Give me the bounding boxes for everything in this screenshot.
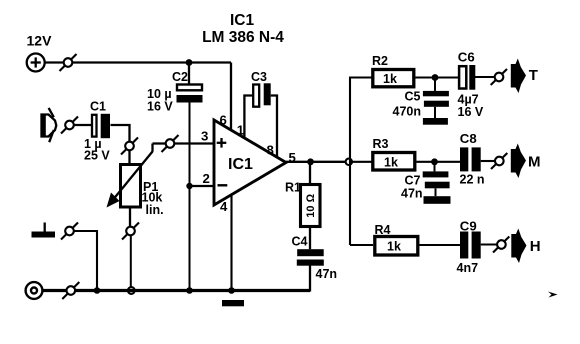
svg-text:C6: C6 xyxy=(458,50,475,65)
ground rail wire xyxy=(43,289,310,292)
svg-text:IC1: IC1 xyxy=(230,12,255,29)
wire H branch xyxy=(350,244,373,246)
wire C1 to P1 top xyxy=(111,125,130,142)
svg-text:47n: 47n xyxy=(316,267,338,281)
svg-text:12V: 12V xyxy=(27,33,53,49)
svg-text:10 Ω: 10 Ω xyxy=(305,193,317,217)
wire R4 to C9 xyxy=(420,244,461,246)
capacitor C5 xyxy=(393,78,449,119)
ground bar below C5 xyxy=(423,118,448,125)
potentiometer P1 xyxy=(107,152,164,218)
capacitor C1 xyxy=(84,100,110,163)
output arrow H xyxy=(511,229,540,264)
IC1 title label xyxy=(202,12,284,46)
junction C2/rail xyxy=(186,59,193,66)
capacitor C3 xyxy=(251,70,271,107)
wire R2 to C6 xyxy=(415,76,458,78)
svg-text:4: 4 xyxy=(220,199,228,214)
svg-text:47n: 47n xyxy=(401,187,423,201)
wire pin 2 xyxy=(190,185,215,187)
svg-text:1: 1 xyxy=(237,123,244,138)
wire R3 to C8 xyxy=(417,161,461,163)
svg-text:C1: C1 xyxy=(90,100,106,114)
junction R1/output xyxy=(307,158,314,165)
wire C6 to contact xyxy=(474,76,494,78)
svg-text:R2: R2 xyxy=(372,54,388,68)
wire xyxy=(45,61,64,63)
wire M branch xyxy=(350,161,372,163)
wire P1 bottom lead xyxy=(129,208,131,227)
input plug symbol xyxy=(41,108,56,142)
svg-text:4n7: 4n7 xyxy=(457,261,479,275)
wire branch vertical xyxy=(349,78,351,246)
wire to pin 3 xyxy=(174,142,214,144)
wire output pin 5 xyxy=(286,161,350,163)
svg-text:C8: C8 xyxy=(460,131,477,146)
svg-text:lin.: lin. xyxy=(146,203,164,217)
svg-text:C4: C4 xyxy=(292,235,308,249)
resistor R3 xyxy=(373,137,415,170)
junction C7 xyxy=(431,158,438,165)
continuation mark bottom right xyxy=(548,292,558,298)
wire C8 to contact xyxy=(481,160,495,162)
wire C3 right lead to pin 8 xyxy=(271,96,277,158)
junction C2-line/rail xyxy=(186,287,193,294)
wire C2 to ground rail xyxy=(189,103,191,291)
output arrow T xyxy=(511,59,538,94)
output arrow M xyxy=(511,144,541,179)
svg-text:M: M xyxy=(528,154,541,171)
junction C5 xyxy=(432,74,439,81)
svg-text:25 V: 25 V xyxy=(84,149,110,163)
junction chassis/rail xyxy=(94,287,101,294)
wire C9 to contact xyxy=(481,243,498,245)
svg-text:C3: C3 xyxy=(251,70,267,84)
svg-text:C5: C5 xyxy=(405,90,421,104)
plug contact T xyxy=(491,69,507,85)
plug contact input xyxy=(61,117,78,134)
plug contact M xyxy=(491,153,507,169)
ground bar below C7 xyxy=(424,196,451,204)
capacitor C7 xyxy=(401,162,450,201)
svg-text:2: 2 xyxy=(203,171,210,186)
svg-text:R1: R1 xyxy=(285,181,301,195)
svg-text:C9: C9 xyxy=(460,218,477,233)
capacitor C2 xyxy=(147,63,203,114)
wire C4 to rail xyxy=(309,265,311,291)
wire to ground rail xyxy=(130,235,132,287)
connector J1 +12V xyxy=(27,54,45,72)
svg-text:R3: R3 xyxy=(373,137,389,151)
svg-text:1k: 1k xyxy=(384,156,398,170)
resistor R4 xyxy=(375,223,418,255)
svg-text:C7: C7 xyxy=(405,174,421,188)
chassis ground symbol xyxy=(32,223,56,238)
svg-text:H: H xyxy=(530,238,541,255)
junction open circle on rail xyxy=(128,287,135,294)
svg-text:LM 386 N-4: LM 386 N-4 xyxy=(202,29,284,46)
plug contact on ground rail xyxy=(62,282,79,299)
resistor R1 xyxy=(285,162,320,249)
svg-text:6: 6 xyxy=(220,113,227,128)
ground bar below pin 4 xyxy=(222,300,244,306)
svg-text:IC1: IC1 xyxy=(228,156,253,173)
plug contact chassis xyxy=(61,223,78,240)
plug contact above P1 xyxy=(121,138,138,155)
wire xyxy=(74,124,91,126)
wire pin6 drop xyxy=(230,63,232,131)
connector O (ground) xyxy=(26,282,43,299)
svg-text:C2: C2 xyxy=(172,70,188,84)
plug contact on 12V rail xyxy=(60,54,77,71)
wire pin 4 to ground rail xyxy=(230,195,232,291)
svg-text:8: 8 xyxy=(267,143,274,158)
wire chassis to rail xyxy=(74,231,97,291)
svg-text:22 n: 22 n xyxy=(460,173,485,187)
junction pin4/rail xyxy=(228,287,235,294)
svg-text:3: 3 xyxy=(201,129,208,144)
junction branch/output xyxy=(346,159,352,165)
svg-text:16 V: 16 V xyxy=(458,105,484,119)
capacitor C9 xyxy=(457,218,481,275)
plug contact wiper xyxy=(162,135,179,152)
svg-text:T: T xyxy=(529,67,538,84)
capacitor C6 xyxy=(458,50,484,120)
svg-text:470n: 470n xyxy=(393,105,422,119)
wire C3 left lead to pin 1 xyxy=(244,96,252,139)
svg-text:1k: 1k xyxy=(387,240,401,254)
wire xyxy=(128,150,130,164)
svg-text:1k: 1k xyxy=(383,72,397,86)
capacitor C8 xyxy=(460,131,485,187)
svg-text:16 V: 16 V xyxy=(147,100,173,114)
capacitor C4 xyxy=(292,235,338,282)
plug contact below P1 xyxy=(122,223,139,240)
resistor R2 xyxy=(372,54,414,87)
junction pin2/C2 line xyxy=(186,183,192,189)
plug contact H xyxy=(493,237,509,253)
wire 12V rail xyxy=(72,61,231,63)
wire T branch left xyxy=(349,76,372,78)
op-amp IC1 xyxy=(214,120,286,205)
wire wiper to pin 3 xyxy=(153,144,166,152)
